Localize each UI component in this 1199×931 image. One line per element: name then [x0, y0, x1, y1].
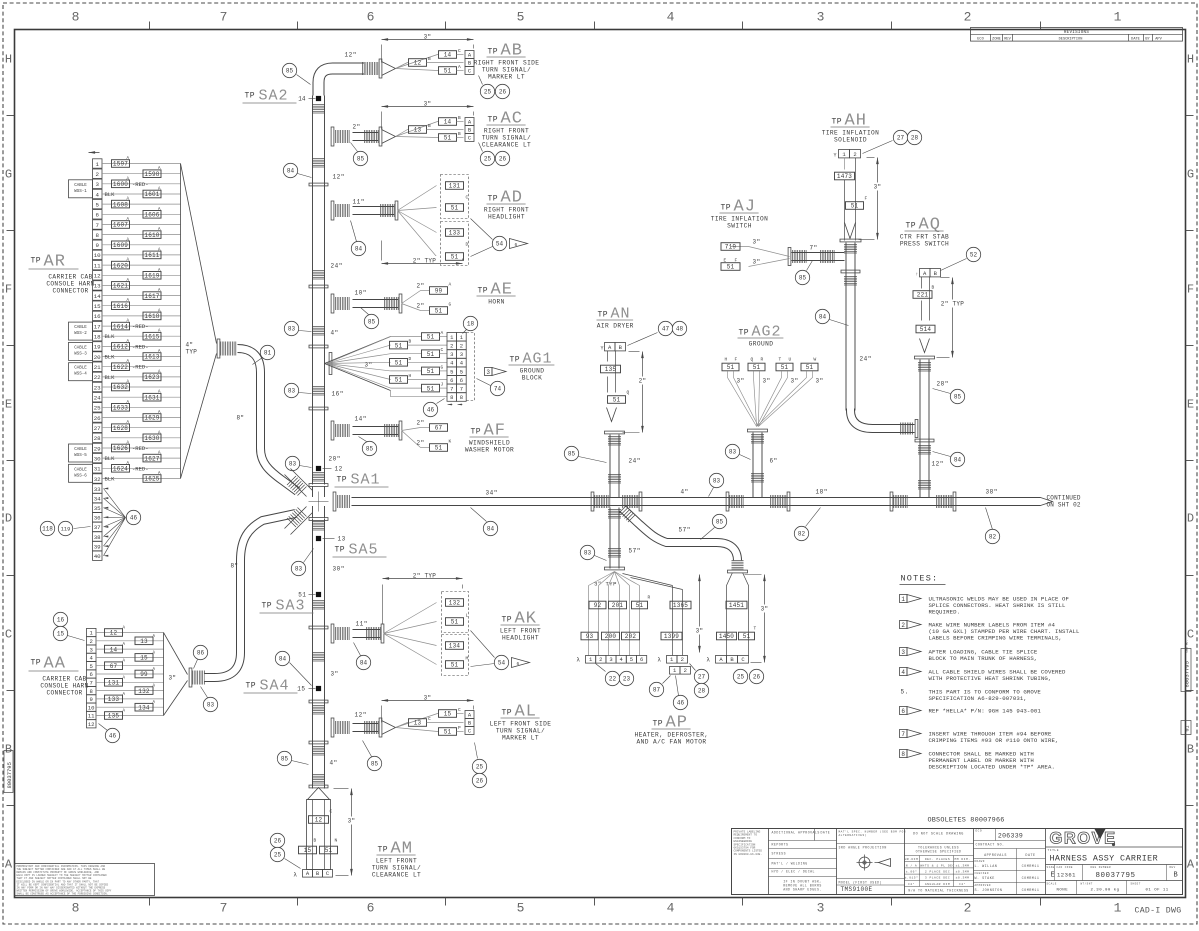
svg-text:F: F	[735, 357, 738, 363]
svg-text:TP: TP	[471, 428, 482, 437]
svg-text:6: 6	[460, 377, 463, 384]
svg-text:AL: AL	[515, 703, 537, 722]
svg-text:IN GR0060-G6-03E.: IN GR0060-G6-03E.	[734, 853, 763, 856]
svg-text:23: 23	[94, 384, 101, 391]
svg-text:15: 15	[297, 686, 305, 693]
svg-text:12: 12	[88, 721, 95, 728]
svg-text:51: 51	[395, 342, 403, 349]
svg-text:DATE: DATE	[1025, 854, 1035, 858]
svg-text:2" TYP: 2" TYP	[941, 301, 965, 308]
svg-text:NONE: NONE	[1057, 889, 1069, 893]
svg-text:TP: TP	[832, 118, 843, 127]
svg-text:TP: TP	[31, 659, 42, 668]
svg-text:DEC. PLACES: DEC. PLACES	[925, 858, 950, 861]
svg-text:3 PLACE DEC: 3 PLACE DEC	[925, 877, 950, 880]
svg-text:LEFT FRONT: LEFT FRONT	[376, 858, 417, 865]
svg-text:TP: TP	[245, 92, 256, 101]
svg-text:84: 84	[287, 168, 295, 175]
svg-text:B: B	[458, 115, 461, 121]
svg-text:12": 12"	[932, 461, 944, 468]
svg-text:C: C	[458, 48, 461, 54]
svg-text:27: 27	[698, 674, 706, 681]
svg-text:5: 5	[90, 663, 93, 670]
svg-text:12: 12	[94, 273, 101, 280]
svg-text:52: 52	[970, 252, 978, 259]
svg-text:2: 2	[681, 656, 684, 663]
svg-text:74: 74	[494, 386, 502, 393]
svg-text:AND SHARP EDGES.: AND SHARP EDGES.	[783, 888, 822, 892]
svg-text:E: E	[5, 398, 12, 412]
svg-text:57": 57"	[679, 527, 691, 534]
svg-text:22: 22	[94, 374, 101, 381]
svg-text:BLK: BLK	[105, 333, 116, 340]
svg-text:80037795: 80037795	[1096, 872, 1136, 880]
svg-text:132: 132	[449, 600, 461, 607]
svg-text:119: 119	[61, 527, 71, 533]
svg-text:±1.3MM: ±1.3MM	[956, 864, 970, 867]
svg-text:30: 30	[94, 455, 101, 462]
svg-text:APV: APV	[1155, 37, 1162, 41]
svg-text:719: 719	[725, 244, 737, 251]
svg-text:1618: 1618	[144, 313, 159, 320]
svg-text:51: 51	[636, 602, 644, 609]
svg-text:84: 84	[487, 526, 495, 533]
svg-text:HEATER, DEFROSTER,: HEATER, DEFROSTER,	[634, 732, 708, 739]
svg-text:83: 83	[289, 461, 297, 468]
svg-text:TURN SIGNAL/: TURN SIGNAL/	[496, 728, 545, 735]
svg-text:TYP: TYP	[186, 349, 198, 356]
svg-text:4: 4	[901, 669, 905, 676]
svg-text:2": 2"	[417, 303, 425, 310]
svg-text:2: 2	[599, 656, 602, 663]
svg-text:BLK: BLK	[105, 455, 116, 462]
svg-text:47: 47	[662, 326, 670, 333]
svg-text:SHALL BE CONSTRUED AS ACCEPTAN: SHALL BE CONSTRUED AS ACCEPTANCE OF THE …	[17, 893, 109, 896]
svg-text:TP: TP	[510, 356, 521, 365]
svg-text:WSS-4: WSS-4	[74, 373, 87, 377]
svg-text:CONSOLE HARN: CONSOLE HARN	[40, 683, 88, 690]
svg-text:WSS-1: WSS-1	[74, 190, 87, 194]
svg-text:84: 84	[360, 660, 368, 667]
svg-text:BLOCK: BLOCK	[522, 375, 543, 382]
svg-text:221: 221	[917, 292, 929, 299]
svg-text:12": 12"	[355, 712, 367, 719]
svg-text:12: 12	[335, 466, 343, 473]
svg-text:11: 11	[88, 713, 95, 720]
svg-text:TIRE INFLATION: TIRE INFLATION	[711, 216, 769, 223]
svg-text:1597: 1597	[113, 161, 128, 168]
svg-text:85: 85	[799, 275, 807, 282]
svg-text:1601: 1601	[144, 191, 159, 198]
svg-text:17: 17	[94, 323, 101, 330]
svg-text:RIGHT FRONT: RIGHT FRONT	[484, 207, 529, 214]
svg-text:MM DIM.: MM DIM.	[954, 858, 970, 861]
svg-text:29: 29	[94, 445, 101, 452]
svg-text:CLEARANCE LT: CLEARANCE LT	[372, 872, 421, 879]
svg-text:LABELS BEFORE CRIMPING WIRE TE: LABELS BEFORE CRIMPING WIRE TERMINALS,	[929, 635, 1063, 642]
svg-text:SA5: SA5	[349, 542, 379, 559]
svg-text:1608: 1608	[113, 201, 128, 208]
svg-text:7: 7	[450, 386, 453, 393]
svg-text:B: B	[1174, 872, 1179, 880]
svg-text:AIR DRYER: AIR DRYER	[597, 323, 634, 330]
svg-text:8": 8"	[231, 563, 239, 570]
svg-text:±0.3MM: ±0.3MM	[956, 877, 970, 880]
svg-text:B: B	[458, 131, 461, 137]
svg-text:85: 85	[281, 756, 289, 763]
svg-text:30": 30"	[333, 566, 345, 573]
svg-text:67: 67	[110, 663, 118, 670]
svg-text:WASHER MOTOR: WASHER MOTOR	[465, 447, 514, 454]
svg-text:28: 28	[911, 135, 919, 142]
svg-text:CONNECTOR: CONNECTOR	[46, 690, 82, 697]
svg-text:F: F	[1187, 283, 1194, 297]
svg-text:OBSOLETES 80007966: OBSOLETES 80007966	[928, 817, 1005, 825]
svg-text:5: 5	[630, 656, 633, 663]
svg-text:1617: 1617	[144, 293, 159, 300]
svg-text:5: 5	[517, 10, 525, 25]
svg-text:F: F	[865, 196, 868, 202]
svg-text:TP: TP	[502, 709, 513, 718]
svg-text:4": 4"	[331, 330, 339, 337]
svg-text:131: 131	[108, 680, 120, 687]
svg-text:1625: 1625	[144, 476, 159, 483]
svg-text:N/A TO MATERIAL THICKNESS: N/A TO MATERIAL THICKNESS	[908, 889, 968, 893]
svg-text:4: 4	[95, 191, 99, 198]
svg-text:1: 1	[901, 596, 905, 603]
svg-text:WINDSHIELD: WINDSHIELD	[469, 440, 510, 447]
svg-text:TMS9100E: TMS9100E	[841, 886, 873, 893]
svg-text:6: 6	[640, 656, 643, 663]
svg-text:135: 135	[108, 713, 120, 720]
svg-text:W: W	[814, 357, 817, 363]
svg-text:ECO: ECO	[977, 37, 983, 41]
svg-text:48: 48	[676, 326, 684, 333]
svg-text:99: 99	[140, 671, 148, 678]
svg-text:84: 84	[355, 246, 363, 253]
svg-text:10: 10	[88, 704, 95, 711]
svg-text:5: 5	[460, 368, 463, 375]
svg-text:80037795: 80037795	[6, 762, 13, 788]
svg-text:51: 51	[753, 364, 761, 371]
svg-text:51: 51	[727, 264, 735, 271]
svg-text:6: 6	[367, 901, 375, 916]
svg-text:51: 51	[444, 135, 452, 142]
svg-text:CARRIER CAB: CARRIER CAB	[42, 676, 86, 683]
svg-text:C: C	[330, 809, 333, 815]
svg-text:TP: TP	[31, 257, 42, 266]
svg-text:RIGHT FRONT SIDE: RIGHT FRONT SIDE	[474, 60, 540, 67]
svg-text:H: H	[5, 53, 12, 67]
svg-text:85: 85	[716, 519, 724, 526]
svg-text:92: 92	[594, 602, 602, 609]
svg-text:1365: 1365	[673, 602, 688, 609]
svg-text:15: 15	[57, 631, 65, 638]
svg-text:118: 118	[42, 526, 53, 533]
svg-text:REPORTS: REPORTS	[772, 843, 789, 847]
svg-text:51: 51	[451, 619, 459, 626]
svg-text:1598: 1598	[144, 171, 159, 178]
svg-text:2" TYP: 2" TYP	[413, 573, 437, 580]
svg-text:20": 20"	[329, 456, 341, 463]
svg-text:ADDITIONAL APPROVALS: ADDITIONAL APPROVALS	[772, 831, 820, 835]
svg-text:λ: λ	[576, 657, 580, 664]
svg-text:51: 51	[427, 368, 435, 375]
svg-text:HEADLIGHT: HEADLIGHT	[488, 214, 525, 221]
svg-text:13: 13	[140, 638, 148, 645]
svg-text:SPECIFICATION A6-829-007031,: SPECIFICATION A6-829-007031,	[929, 695, 1027, 702]
svg-text:133: 133	[449, 230, 461, 237]
svg-text:51: 51	[444, 68, 452, 75]
svg-text:6: 6	[517, 661, 520, 667]
svg-text:TP: TP	[478, 287, 489, 296]
svg-text:D: D	[1187, 512, 1194, 526]
svg-text:01: 01	[1185, 725, 1191, 731]
svg-text:HR.DIM: HR.DIM	[905, 858, 919, 861]
svg-text:25: 25	[737, 674, 745, 681]
svg-text:7: 7	[90, 680, 93, 687]
svg-text:7: 7	[220, 10, 228, 25]
svg-text:BLK: BLK	[105, 354, 116, 361]
svg-text:26: 26	[499, 89, 507, 96]
svg-text:±2°: ±2°	[959, 882, 966, 886]
svg-text:CABLE: CABLE	[74, 346, 87, 350]
svg-text:2" TYP: 2" TYP	[413, 258, 437, 265]
svg-text:8: 8	[72, 10, 80, 25]
svg-text:31: 31	[94, 466, 101, 473]
svg-text:14: 14	[110, 646, 118, 653]
svg-text:1619: 1619	[144, 273, 159, 280]
svg-text:38: 38	[94, 534, 101, 541]
svg-text:23: 23	[623, 676, 631, 683]
svg-text:1473: 1473	[837, 173, 852, 180]
svg-text:WSS-6: WSS-6	[74, 474, 87, 478]
svg-text:ON SHT 02: ON SHT 02	[1047, 502, 1081, 509]
svg-text:84: 84	[819, 314, 827, 321]
svg-text:46: 46	[677, 700, 685, 707]
svg-text:7": 7"	[810, 245, 818, 252]
svg-text:54: 54	[496, 241, 504, 248]
svg-text:83: 83	[729, 449, 737, 456]
svg-text:1614: 1614	[113, 323, 128, 330]
svg-text:HEADLIGHT: HEADLIGHT	[502, 635, 539, 642]
svg-text:25: 25	[274, 852, 282, 859]
svg-text:A: A	[458, 64, 461, 70]
svg-text:5: 5	[95, 201, 99, 208]
svg-text:16": 16"	[332, 391, 344, 398]
svg-text:REQUIRED.: REQUIRED.	[929, 609, 961, 616]
svg-text:99: 99	[435, 288, 443, 295]
svg-text:B: B	[1187, 743, 1194, 757]
svg-text:25: 25	[484, 156, 492, 163]
svg-text:12: 12	[315, 817, 323, 824]
svg-text:3": 3"	[753, 259, 761, 266]
svg-text:83: 83	[713, 478, 721, 485]
svg-text:85: 85	[368, 319, 376, 326]
svg-text:WHTS & 1 PL DEC: WHTS & 1 PL DEC	[920, 864, 955, 867]
svg-text:2: 2	[964, 901, 972, 916]
svg-text:HORN: HORN	[488, 299, 504, 306]
svg-text:51: 51	[435, 445, 443, 452]
svg-text:3": 3"	[753, 239, 761, 246]
svg-text:R: R	[761, 357, 764, 363]
svg-text:51: 51	[451, 254, 459, 261]
svg-text:82: 82	[989, 534, 997, 541]
svg-text:3": 3"	[424, 34, 432, 41]
svg-text:1631: 1631	[144, 394, 159, 401]
svg-text:COMRM11: COMRM11	[1022, 865, 1040, 869]
svg-text:B: B	[932, 285, 935, 291]
svg-text:51: 51	[451, 205, 459, 212]
svg-text:2: 2	[684, 667, 687, 674]
svg-text:1609: 1609	[113, 242, 128, 249]
svg-text:51: 51	[613, 397, 621, 404]
svg-text:51: 51	[851, 203, 859, 210]
svg-text:NOTES:: NOTES:	[901, 574, 939, 584]
svg-text:6: 6	[450, 377, 453, 384]
svg-text:201: 201	[612, 602, 624, 609]
svg-text:CABLE: CABLE	[74, 448, 87, 452]
svg-text:TURN SIGNAL/: TURN SIGNAL/	[372, 865, 421, 872]
svg-text:5: 5	[517, 901, 525, 916]
svg-text:40: 40	[94, 553, 101, 560]
svg-text:2: 2	[853, 151, 856, 158]
svg-text:WT/SHT: WT/SHT	[1081, 882, 1093, 886]
svg-text:2": 2"	[353, 124, 361, 131]
svg-text:CAD-I DWG: CAD-I DWG	[1135, 907, 1182, 916]
svg-text:REF *HELLA* P/N: 9GH 145 943-0: REF *HELLA* P/N: 9GH 145 943-001	[929, 708, 1042, 715]
svg-text:COMRM11: COMRM11	[1022, 889, 1040, 893]
svg-text:APPROVALS: APPROVALS	[984, 854, 1007, 858]
svg-text:51: 51	[727, 364, 735, 371]
svg-text:01 OF 11: 01 OF 11	[1146, 889, 1169, 893]
svg-text:13: 13	[94, 283, 101, 290]
svg-text:2: 2	[95, 171, 99, 178]
svg-text:OTHERWISE SPECIFIED: OTHERWISE SPECIFIED	[916, 850, 962, 854]
svg-text:1633: 1633	[113, 405, 128, 412]
svg-text:DO NOT SCALE DRAWING: DO NOT SCALE DRAWING	[913, 833, 964, 837]
svg-text:4": 4"	[681, 489, 689, 496]
svg-text:3": 3"	[874, 184, 882, 191]
svg-text:2": 2"	[417, 283, 425, 290]
svg-text:3: 3	[817, 10, 825, 25]
svg-text:38": 38"	[986, 489, 998, 496]
svg-text:4: 4	[667, 901, 675, 916]
svg-text:STRESS: STRESS	[772, 852, 786, 856]
svg-text:BLK: BLK	[105, 374, 116, 381]
svg-text:SOLENOID: SOLENOID	[834, 137, 867, 144]
svg-text:27: 27	[94, 425, 101, 432]
svg-text:CHECKED: CHECKED	[975, 872, 989, 875]
svg-text:DATE: DATE	[821, 831, 831, 835]
svg-text:13: 13	[414, 720, 422, 727]
svg-text:3": 3"	[737, 378, 745, 385]
svg-text:CONNECTOR: CONNECTOR	[52, 288, 88, 295]
svg-text:AF: AF	[484, 422, 506, 441]
svg-text:C: C	[441, 347, 444, 353]
svg-text:N / A: N / A	[906, 863, 918, 867]
svg-text:MARKER LT: MARKER LT	[488, 74, 525, 81]
svg-text:12361: 12361	[1057, 872, 1076, 879]
svg-text:25: 25	[476, 764, 484, 771]
svg-text:λ: λ	[657, 657, 661, 664]
svg-text:6: 6	[90, 671, 93, 678]
svg-text:12": 12"	[333, 174, 345, 181]
svg-text:93: 93	[586, 633, 594, 640]
svg-text:AND A/C FAN MOTOR: AND A/C FAN MOTOR	[637, 739, 707, 746]
svg-text:T: T	[754, 626, 757, 632]
svg-text:37: 37	[94, 524, 101, 531]
svg-text:TP: TP	[378, 846, 389, 855]
svg-text:CONSOLE HARN: CONSOLE HARN	[46, 281, 94, 288]
svg-text:P: P	[458, 725, 461, 731]
svg-text:1613: 1613	[144, 354, 159, 361]
svg-text:G: G	[449, 302, 452, 308]
svg-text:2: 2	[901, 622, 905, 629]
svg-text:A: A	[1187, 858, 1195, 872]
svg-text:14: 14	[94, 293, 101, 300]
svg-text:AD: AD	[501, 189, 523, 208]
svg-text:9: 9	[90, 696, 93, 703]
svg-text:1616: 1616	[113, 303, 128, 310]
svg-text:54: 54	[498, 660, 506, 667]
svg-text:HARNESS ASSY CARRIER: HARNESS ASSY CARRIER	[1050, 854, 1159, 864]
svg-text:12: 12	[110, 630, 118, 637]
svg-text:SHEET: SHEET	[1131, 883, 1141, 886]
svg-text:λ: λ	[293, 872, 297, 879]
svg-text:TP: TP	[246, 682, 257, 691]
svg-text:1: 1	[95, 161, 99, 168]
svg-text:51: 51	[451, 662, 459, 669]
svg-text:7: 7	[901, 731, 905, 738]
svg-text:AB: AB	[501, 42, 523, 61]
svg-text:2 PLACE DEC: 2 PLACE DEC	[925, 871, 950, 874]
svg-text:28": 28"	[937, 381, 949, 388]
svg-text:TITLE: TITLE	[1048, 849, 1060, 852]
svg-text:Q: Q	[751, 357, 754, 363]
svg-text:-RED-: -RED-	[132, 323, 149, 330]
svg-text:PRESS SWITCH: PRESS SWITCH	[900, 241, 949, 248]
svg-text:24: 24	[94, 395, 101, 402]
svg-text:46: 46	[427, 407, 435, 414]
svg-text:22: 22	[609, 676, 617, 683]
svg-text:DESCRIPTION LOCATED UNDER *TP*: DESCRIPTION LOCATED UNDER *TP* AREA.	[929, 764, 1055, 771]
svg-text:36: 36	[94, 515, 101, 522]
svg-text:11": 11"	[353, 199, 365, 206]
svg-text:35: 35	[94, 505, 101, 512]
svg-text:Y: Y	[834, 153, 838, 159]
svg-text:1622: 1622	[113, 364, 128, 371]
svg-text:83: 83	[584, 550, 592, 557]
svg-text:15: 15	[94, 303, 101, 310]
svg-text:83: 83	[295, 566, 303, 573]
svg-text:1606: 1606	[144, 212, 159, 219]
svg-text:11": 11"	[356, 621, 368, 628]
svg-text:B: B	[314, 838, 317, 844]
svg-text:25: 25	[484, 89, 492, 96]
svg-text:-RED-: -RED-	[132, 445, 149, 452]
svg-text:3": 3"	[763, 378, 771, 385]
svg-text:GROVE: GROVE	[1050, 830, 1117, 848]
svg-text:20: 20	[94, 354, 101, 361]
svg-text:CABLE: CABLE	[74, 367, 87, 371]
svg-text:H: H	[1187, 53, 1194, 67]
svg-text:1626: 1626	[113, 445, 128, 452]
svg-text:85: 85	[357, 156, 365, 163]
svg-text:ANGULAR DIM: ANGULAR DIM	[925, 883, 950, 886]
svg-text:14": 14"	[355, 416, 367, 423]
svg-text:3": 3"	[169, 675, 177, 682]
